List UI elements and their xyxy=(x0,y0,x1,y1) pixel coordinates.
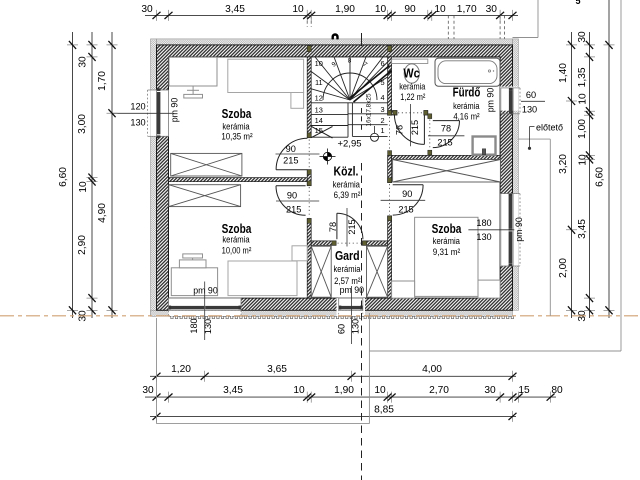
svg-text:kerámia: kerámia xyxy=(334,264,361,274)
svg-text:3,45: 3,45 xyxy=(225,4,245,15)
svg-text:Szoba: Szoba xyxy=(222,107,253,121)
svg-text:1,35: 1,35 xyxy=(577,67,588,87)
svg-text:11: 11 xyxy=(315,78,323,87)
svg-text:10: 10 xyxy=(315,59,323,68)
exterior insulation band (right) xyxy=(513,39,519,310)
svg-text:kerámia: kerámia xyxy=(333,179,360,189)
svg-text:30: 30 xyxy=(486,4,498,15)
svg-text:215: 215 xyxy=(437,138,452,148)
svg-text:10: 10 xyxy=(374,385,386,396)
jamb blocks door2 xyxy=(307,181,311,186)
door2 room2 (90/215) xyxy=(276,186,309,218)
svg-text:Wc: Wc xyxy=(403,67,419,81)
svg-text:4,00: 4,00 xyxy=(422,364,442,375)
right chain total 6,60 xyxy=(595,0,615,318)
room3 nightstand right xyxy=(478,280,500,298)
svg-text:3,00: 3,00 xyxy=(77,114,88,134)
svg-text:90: 90 xyxy=(404,4,416,15)
partition H2 stub left (wc south) xyxy=(392,111,397,115)
svg-text:215: 215 xyxy=(410,120,420,135)
svg-text:1,20: 1,20 xyxy=(171,364,191,375)
jamb blocks door3 xyxy=(388,178,392,183)
svg-text:5: 5 xyxy=(380,78,384,87)
svg-text:16x17,8x25: 16x17,8x25 xyxy=(366,93,373,126)
svg-text:130: 130 xyxy=(203,319,213,334)
centre axis main xyxy=(361,163,363,480)
bottom row3 total 8,85 xyxy=(150,404,517,422)
window bedroom2 bottom (180/130) xyxy=(169,298,242,316)
svg-text:130: 130 xyxy=(351,319,361,334)
centre axis top xyxy=(361,33,363,46)
exterior insulation band (bottom) xyxy=(151,310,513,316)
exterior insulation band (left) xyxy=(151,39,157,316)
room2 nightstand xyxy=(292,246,307,261)
svg-text:10: 10 xyxy=(292,4,304,15)
right chain segments xyxy=(577,31,595,322)
wc cistern shelf xyxy=(392,59,428,63)
lower storey outline vertical centre xyxy=(368,313,370,424)
svg-text:2,90: 2,90 xyxy=(77,235,88,255)
svg-text:3,65: 3,65 xyxy=(267,364,287,375)
svg-text:10,00 m²: 10,00 m² xyxy=(222,246,252,256)
room1 desk xyxy=(169,57,217,86)
svg-text:90: 90 xyxy=(402,189,412,199)
svg-text:30: 30 xyxy=(141,4,153,15)
svg-text:2,00: 2,00 xyxy=(558,258,569,278)
bottom row1 window positions xyxy=(150,364,517,382)
lower storey outline bottom-left xyxy=(157,423,370,425)
svg-text:Gard: Gard xyxy=(335,249,360,263)
room1 chair xyxy=(184,94,203,98)
svg-text:30: 30 xyxy=(484,385,496,396)
room3 bed xyxy=(415,217,478,296)
gard window leader upper xyxy=(350,208,352,247)
svg-text:12: 12 xyxy=(315,94,323,103)
room1 wardrobe with X xyxy=(171,153,242,176)
svg-text:90: 90 xyxy=(287,191,297,201)
svg-text:130: 130 xyxy=(522,105,537,115)
partition P1 middle (between doors) xyxy=(307,170,311,186)
partition P2 upper (stairs/wc) xyxy=(388,57,392,115)
section line A-A (orange) xyxy=(0,315,640,317)
svg-text:130: 130 xyxy=(130,118,145,128)
bathroom door (78/215) xyxy=(430,120,460,150)
partition P1 upper (room1/stairs) xyxy=(307,57,311,138)
svg-text:215: 215 xyxy=(347,219,357,234)
svg-text:78: 78 xyxy=(395,125,405,135)
partition H4 left (gard north) xyxy=(311,241,336,245)
staircase treads and winders xyxy=(311,57,391,138)
bath door label divider xyxy=(428,135,464,137)
sawtooth edge bottom wall xyxy=(169,316,514,318)
svg-text:kerámia: kerámia xyxy=(433,236,460,246)
svg-text:6,60: 6,60 xyxy=(58,167,69,187)
staircase entry circle xyxy=(371,133,379,141)
svg-text:pm 90: pm 90 xyxy=(486,88,496,113)
svg-text:10: 10 xyxy=(577,93,588,105)
left window leader xyxy=(112,112,173,114)
svg-text:10: 10 xyxy=(434,4,446,15)
svg-text:1,40: 1,40 xyxy=(558,63,569,83)
svg-text:15: 15 xyxy=(518,385,530,396)
lower storey outline right xyxy=(620,0,622,351)
opening left window xyxy=(151,90,175,136)
svg-text:120: 120 xyxy=(130,102,145,112)
svg-text:30: 30 xyxy=(78,56,89,68)
svg-text:15: 15 xyxy=(315,126,323,135)
gard window leader xyxy=(351,286,353,344)
svg-text:130: 130 xyxy=(476,232,491,242)
hall-bath opening dotted xyxy=(389,117,391,154)
svg-text:3,20: 3,20 xyxy=(558,154,569,174)
svg-text:13: 13 xyxy=(315,106,323,115)
opening bathroom window xyxy=(500,87,518,111)
level marker symbol xyxy=(320,149,336,165)
room3 nightstand left xyxy=(392,281,415,298)
svg-text:3,45: 3,45 xyxy=(577,219,588,239)
svg-text:10: 10 xyxy=(577,154,588,166)
partition P2 middle (hall/bath) xyxy=(388,155,392,182)
svg-text:10: 10 xyxy=(293,385,305,396)
lower storey outline bottom-right xyxy=(369,350,621,352)
lower storey outline left xyxy=(156,318,158,424)
wc door (78/215) xyxy=(394,113,424,145)
room2 monitor xyxy=(183,254,203,258)
jamb blocks door1 xyxy=(307,133,311,138)
washbasin xyxy=(473,137,496,155)
jamb blocks stairwell top xyxy=(307,46,311,52)
svg-text:3,45: 3,45 xyxy=(223,385,243,396)
vent symbol xyxy=(332,33,339,39)
svg-text:215: 215 xyxy=(283,156,298,166)
svg-text:kerámia: kerámia xyxy=(399,82,425,92)
door1 room1 (90/215) xyxy=(276,138,309,169)
svg-text:10: 10 xyxy=(78,181,89,193)
room2 desk xyxy=(171,268,217,296)
svg-text:1,00: 1,00 xyxy=(577,119,588,139)
svg-text:2: 2 xyxy=(380,116,384,125)
svg-text:215: 215 xyxy=(398,204,413,214)
svg-text:9,31 m²: 9,31 m² xyxy=(433,247,461,257)
gard door (78/215) xyxy=(337,213,363,243)
exterior insulation band (top) xyxy=(157,39,513,45)
partition H4 right (gard north) xyxy=(363,241,388,245)
svg-text:80: 80 xyxy=(551,385,563,396)
svg-text:1: 1 xyxy=(380,126,384,135)
window left (120/130) xyxy=(148,88,169,138)
window bathroom (60/130) xyxy=(501,88,520,114)
room2 bed xyxy=(228,261,297,296)
canopy outline right xyxy=(549,139,551,316)
svg-text:Fürdő: Fürdő xyxy=(453,86,481,100)
svg-text:1,70: 1,70 xyxy=(97,71,108,91)
top dimension labels xyxy=(141,4,497,15)
svg-text:4,90: 4,90 xyxy=(97,203,108,223)
svg-text:pm 90: pm 90 xyxy=(514,217,524,242)
svg-text:215: 215 xyxy=(286,205,301,215)
canopy outline top xyxy=(537,0,539,38)
bath window leader xyxy=(521,100,545,102)
wc door label divider xyxy=(410,104,412,146)
eloteto leader xyxy=(530,126,535,128)
svg-text:78: 78 xyxy=(441,124,451,134)
svg-text:pm 90: pm 90 xyxy=(193,285,218,295)
partition H2 stub right (wc south) xyxy=(424,111,428,115)
svg-text:180: 180 xyxy=(476,218,491,228)
partition P2 lower (gard/room3) xyxy=(388,216,392,298)
opening bedroom2 window xyxy=(169,298,242,316)
svg-text:4,16 m²: 4,16 m² xyxy=(453,112,479,122)
gard door label divider xyxy=(346,208,348,247)
door1 label divider xyxy=(276,153,320,155)
window gard bottom (60/130) xyxy=(339,298,363,316)
opening bedroom3 window xyxy=(500,194,518,266)
top projection dashes xyxy=(447,15,449,39)
svg-text:10: 10 xyxy=(375,4,387,15)
partition H1 (room1/room2) xyxy=(169,178,308,182)
wc toilet bowl xyxy=(404,64,419,83)
svg-text:pm 90: pm 90 xyxy=(170,98,180,123)
svg-text:30: 30 xyxy=(142,385,154,396)
top dimension chain line xyxy=(145,10,518,21)
svg-text:90: 90 xyxy=(286,144,296,154)
svg-text:4: 4 xyxy=(380,93,384,102)
svg-text:6,60: 6,60 xyxy=(595,167,606,187)
svg-text:8: 8 xyxy=(348,58,352,65)
svg-text:6,39 m²: 6,39 m² xyxy=(334,190,361,200)
svg-text:14: 14 xyxy=(315,116,323,125)
svg-text:60: 60 xyxy=(337,324,347,334)
centre axis stairs xyxy=(361,108,363,133)
svg-text:1,22 m²: 1,22 m² xyxy=(400,92,425,102)
svg-text:78: 78 xyxy=(328,222,338,232)
svg-text:60: 60 xyxy=(526,90,536,100)
door3 label divider xyxy=(381,199,426,201)
bathtub xyxy=(435,58,500,86)
door2 label divider xyxy=(276,200,319,202)
svg-text:1,90: 1,90 xyxy=(334,385,354,396)
jamb blocks bath door xyxy=(428,114,432,119)
jamb blocks gard door xyxy=(332,241,336,245)
svg-text:+2,95: +2,95 xyxy=(337,139,361,150)
room2 chair xyxy=(179,260,206,268)
room2 window leader xyxy=(204,282,206,341)
jamb blocks wc door xyxy=(393,110,397,115)
svg-text:5: 5 xyxy=(575,0,580,6)
svg-text:Közl.: Közl. xyxy=(334,165,359,179)
svg-text:1,90: 1,90 xyxy=(335,4,355,15)
opening gard window xyxy=(337,298,366,316)
svg-text:1,70: 1,70 xyxy=(457,4,477,15)
svg-text:30: 30 xyxy=(577,31,588,43)
right chain window positions xyxy=(558,32,577,318)
svg-text:3: 3 xyxy=(380,105,384,114)
svg-text:kerámia: kerámia xyxy=(222,235,249,245)
bottom row2 segments xyxy=(142,385,563,403)
left chain total 6,60 xyxy=(67,32,78,318)
room3 wardrobe with X xyxy=(393,160,501,183)
gard wardrobe left with X xyxy=(311,246,331,297)
svg-text:kerámia: kerámia xyxy=(222,122,249,132)
svg-text:6: 6 xyxy=(380,59,384,68)
svg-text:Szoba: Szoba xyxy=(432,222,463,236)
svg-text:kerámia: kerámia xyxy=(453,101,479,111)
room2 wardrobe with X xyxy=(169,185,241,207)
room1 nightstand xyxy=(291,93,304,109)
svg-text:8,85: 8,85 xyxy=(374,404,394,415)
staircase step numbers xyxy=(315,58,385,136)
jamb blocks hall-bath opening xyxy=(388,110,392,115)
svg-text:10,35 m²: 10,35 m² xyxy=(221,131,252,141)
gard wardrobe right with X xyxy=(367,246,388,297)
room3 window leader xyxy=(468,229,514,231)
svg-text:előtető: előtető xyxy=(536,122,563,132)
door3 room3 (90/215) xyxy=(390,184,424,215)
left chain window position xyxy=(97,32,118,318)
partition P1 lower (room2/gard) xyxy=(307,219,311,299)
svg-text:2,70: 2,70 xyxy=(429,385,449,396)
exterior wall ring xyxy=(157,45,513,310)
room1 bed xyxy=(228,59,304,92)
left chain segments xyxy=(77,32,98,322)
svg-text:180: 180 xyxy=(189,318,199,333)
partition H3 (bath/room3) xyxy=(392,155,501,159)
window bedroom3 (180/130) xyxy=(501,194,520,267)
